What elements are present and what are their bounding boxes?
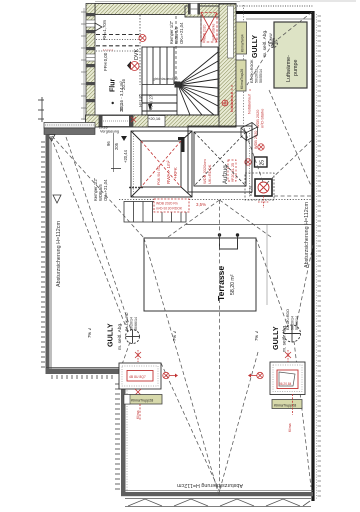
svg-text:+20,16: +20,16 bbox=[148, 116, 161, 121]
svg-text:gleichlaufend 90: gleichlaufend 90 bbox=[153, 77, 178, 81]
svg-text:WDB 2020: WDB 2020 bbox=[256, 110, 260, 128]
svg-text:+20,44: +20,44 bbox=[123, 149, 128, 163]
dashed vertical separation x243 bbox=[243, 5, 245, 127]
svg-text:205: 205 bbox=[114, 142, 119, 150]
svg-text:4B 8U 8Q7: 4B 8U 8Q7 bbox=[129, 375, 146, 379]
svg-text:KlimaTrup26: KlimaTrup26 bbox=[240, 69, 244, 89]
svg-text:Luftwärme-: Luftwärme- bbox=[286, 55, 292, 82]
right railing ticks bbox=[318, 16, 322, 496]
svg-text:F20 ZL 25: F20 ZL 25 bbox=[231, 163, 235, 180]
svg-text:5,0 kW: 5,0 kW bbox=[269, 33, 273, 44]
left railing upper bbox=[41, 135, 62, 373]
wall south band bbox=[86, 115, 237, 127]
svg-text:WDB 2020 Rn: WDB 2020 Rn bbox=[156, 202, 178, 206]
svg-text:KlimaTrupp28: KlimaTrupp28 bbox=[274, 404, 296, 408]
svg-text:50/66/14: 50/66/14 bbox=[134, 317, 138, 331]
svg-text:m²D-Stärke: m²D-Stärke bbox=[212, 24, 216, 41]
left railing lower vertical bbox=[115, 374, 127, 493]
svg-text:EA-OK=RD: EA-OK=RD bbox=[125, 312, 129, 331]
svg-text:Notüberlauf: Notüberlauf bbox=[248, 93, 252, 114]
svg-text:GULLY: GULLY bbox=[271, 326, 280, 350]
RWA skylight bbox=[131, 131, 192, 197]
chimney 3d sketch bbox=[241, 123, 258, 141]
vent square 25 bbox=[255, 157, 268, 167]
green pump box bbox=[269, 22, 307, 88]
boundary right thick bbox=[313, 11, 317, 501]
svg-text:m. seitl. Abg.: m. seitl. Abg. bbox=[262, 30, 268, 57]
svg-text:RWA > 1m²: RWA > 1m² bbox=[166, 160, 171, 184]
gully circle top-right bbox=[269, 39, 278, 48]
gully box near aufzug bbox=[245, 173, 274, 208]
facade dotted line bbox=[119, 199, 312, 201]
left gully bbox=[87, 312, 177, 350]
svg-text:Absturzsicherung H=112cm: Absturzsicherung H=112cm bbox=[56, 221, 62, 287]
wall west bbox=[81, 4, 95, 123]
svg-text:7% ↲: 7% ↲ bbox=[87, 327, 92, 338]
right gully bbox=[254, 309, 301, 352]
svg-text:m²D-St 30 RDOK: m²D-St 30 RDOK bbox=[156, 207, 183, 211]
corner marks above cap bbox=[38, 97, 44, 122]
svg-text:Absturzsicherung H=112cm: Absturzsicherung H=112cm bbox=[177, 482, 243, 488]
svg-text:50/20/13: 50/20/13 bbox=[255, 69, 259, 83]
red box top bbox=[201, 13, 217, 43]
svg-text:H=1,85: H=1,85 bbox=[138, 93, 143, 107]
bracket with dots bbox=[218, 233, 239, 249]
left railing jog horizontal bbox=[46, 368, 122, 380]
svg-text:7% ↲: 7% ↲ bbox=[172, 330, 177, 341]
svg-text:50/20/14: 50/20/14 bbox=[130, 317, 134, 331]
grate strip bbox=[124, 202, 186, 223]
svg-text:FFH 0,00: FFH 0,00 bbox=[103, 52, 108, 71]
svg-text:Verglasung: Verglasung bbox=[100, 130, 119, 134]
svg-text:GULLY: GULLY bbox=[252, 35, 259, 58]
svg-text:50/55/14: 50/55/14 bbox=[259, 69, 263, 83]
svg-text:x: x bbox=[248, 89, 252, 91]
svg-text:m²D-Stärke: m²D-Stärke bbox=[261, 109, 265, 128]
svg-text:KL 25: KL 25 bbox=[248, 185, 253, 196]
svg-text:DVK: DVK bbox=[134, 49, 140, 60]
svg-text:P08 /04 /SL: P08 /04 /SL bbox=[157, 165, 161, 185]
svg-text:20.16: 20.16 bbox=[121, 78, 126, 90]
khaki labels top bbox=[236, 22, 247, 91]
svg-text:3,5%: 3,5% bbox=[196, 202, 206, 207]
svg-text:pumpe: pumpe bbox=[293, 60, 299, 76]
bottom railing bbox=[121, 482, 313, 507]
svg-text:96: 96 bbox=[106, 141, 111, 146]
red dashed box facade bbox=[154, 199, 189, 212]
svg-text:Klima: Klima bbox=[288, 423, 292, 432]
svg-text:20 1: 20 1 bbox=[119, 103, 124, 112]
wall north band bbox=[95, 1, 356, 17]
svg-text:25: 25 bbox=[260, 160, 266, 166]
wall east bbox=[219, 4, 236, 127]
door in north band bbox=[188, 4, 200, 15]
svg-text:UK=RDOK: UK=RDOK bbox=[207, 164, 212, 184]
right red box set bbox=[248, 350, 305, 432]
svg-text:KlimaTw34: KlimaTw34 bbox=[241, 34, 245, 52]
svg-text:Notüberlauf: Notüberlauf bbox=[230, 91, 234, 112]
svg-text:m. seitl. Abg.: m. seitl. Abg. bbox=[117, 323, 123, 350]
svg-text:+RFK: +RFK bbox=[173, 166, 178, 179]
svg-text:Flur: Flur bbox=[110, 79, 117, 92]
svg-text:KlimaTrupp28: KlimaTrupp28 bbox=[131, 399, 153, 403]
svg-text:58,20 m²: 58,20 m² bbox=[230, 274, 236, 295]
svg-text:Terrasse: Terrasse bbox=[216, 266, 226, 301]
svg-text:56,20,84: 56,20,84 bbox=[279, 382, 292, 386]
svg-text:GULLY: GULLY bbox=[106, 323, 115, 347]
svg-text:Klima: Klima bbox=[136, 410, 140, 419]
left red box set bbox=[119, 350, 178, 420]
svg-text:OK=+21,04: OK=+21,04 bbox=[179, 22, 184, 44]
red notuberlauf bbox=[231, 85, 233, 112]
Aufzug bbox=[188, 126, 252, 192]
drainage dashed lines bbox=[51, 12, 313, 497]
svg-text:EA OK=RDO: EA OK=RDO bbox=[286, 309, 290, 330]
svg-text:Absturzsicherung H=112cm: Absturzsicherung H=112cm bbox=[304, 202, 310, 268]
parapet top right bbox=[236, 6, 313, 19]
red marks flur bbox=[130, 35, 146, 71]
svg-text:7% ↲: 7% ↲ bbox=[254, 330, 259, 341]
svg-text:50/20/14: 50/20/14 bbox=[291, 316, 295, 330]
stair box bbox=[142, 47, 218, 115]
parapet cap top-left bbox=[44, 123, 95, 142]
svg-text:RH=1,70m: RH=1,70m bbox=[102, 19, 107, 40]
inner rect terrasse bbox=[144, 238, 256, 311]
svg-text:WDB 2020: WDB 2020 bbox=[203, 24, 207, 41]
